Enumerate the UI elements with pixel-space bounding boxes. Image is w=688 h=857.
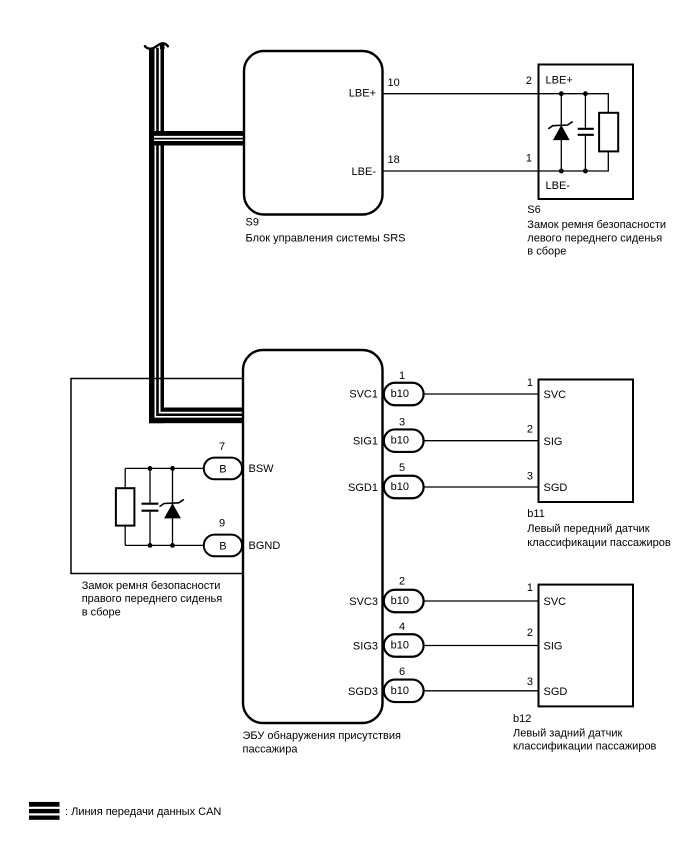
svg-text:SIG: SIG	[544, 436, 563, 448]
caption right front seat belt buckle	[82, 580, 223, 619]
caption S6	[527, 219, 666, 258]
svg-text:SVC3: SVC3	[349, 596, 378, 608]
pin number 2 (S6)	[526, 75, 532, 87]
wire break symbol at top of CAN bus	[145, 43, 168, 49]
pin label SVC3	[349, 596, 378, 608]
pin label SIG (b11)	[544, 436, 563, 448]
wire S6 bottom rail	[538, 151, 608, 171]
pin number 4 (ECU side lower)	[399, 621, 405, 633]
svg-text:5: 5	[399, 462, 405, 474]
svg-text:BSW: BSW	[249, 463, 275, 475]
svg-text:b10: b10	[391, 595, 409, 607]
wire LBE+ net (S9 pin 10 to S6 pin 2)	[383, 93, 539, 95]
pin label LBE+ (S9)	[349, 88, 376, 100]
wire SVC1 net	[423, 393, 538, 395]
svg-text:правого переднего сиденья: правого переднего сиденья	[82, 593, 223, 605]
wire S6 top rail	[538, 94, 608, 113]
pin label SGD (b11)	[544, 482, 568, 494]
pin number 3 (b12 side)	[527, 676, 533, 688]
svg-text:b10: b10	[391, 435, 409, 447]
svg-text:1: 1	[526, 153, 532, 165]
connector pin b10 (SIG1, pin 3)	[384, 429, 424, 452]
pin number 6 (ECU side lower)	[399, 666, 405, 678]
pin label LBE+ (S6)	[546, 75, 573, 87]
svg-text:2: 2	[399, 575, 405, 587]
svg-text:классификации пассажиров: классификации пассажиров	[513, 741, 657, 753]
pin number 1 (b12 side)	[527, 582, 533, 594]
pin number 2 (b12 side)	[527, 627, 533, 639]
wire LBE- net (S9 pin 18 to S6 pin 1)	[383, 170, 539, 172]
svg-text:LBE-: LBE-	[352, 166, 377, 178]
pin number 2 (ECU side lower)	[399, 575, 405, 587]
svg-text:LBE+: LBE+	[349, 88, 376, 100]
pin label BGND	[249, 540, 281, 552]
pin label SIG (b12)	[544, 641, 563, 653]
svg-text:2: 2	[527, 424, 533, 436]
connector pin b10 (SIG3, pin 4)	[384, 634, 424, 657]
svg-text:1: 1	[527, 582, 533, 594]
svg-text:SVC: SVC	[544, 389, 567, 401]
label S6	[527, 204, 540, 216]
pin number 9	[219, 518, 225, 530]
svg-text:b10: b10	[391, 640, 409, 652]
pin number 5 (ECU side upper)	[399, 462, 405, 474]
svg-text:3: 3	[527, 471, 533, 483]
wire SGD3 net	[423, 690, 538, 692]
svg-text:b10: b10	[391, 481, 409, 493]
pin number 3 (b11 side)	[527, 471, 533, 483]
pin label BSW	[249, 463, 275, 475]
svg-text:классификации пассажиров: классификации пассажиров	[527, 537, 671, 549]
wire SIG1 net	[423, 440, 538, 442]
junction dots buckle	[148, 466, 175, 548]
connector pin B (BSW, pin 7)	[204, 458, 242, 480]
svg-text:левого переднего сиденья: левого переднего сиденья	[527, 233, 662, 245]
capacitor (buckle internal)	[142, 468, 159, 545]
svg-text:2: 2	[526, 75, 532, 87]
pin label SGD3	[348, 686, 378, 698]
pin label SGD1	[348, 482, 378, 494]
svg-text:: Линия передачи данных CAN: : Линия передачи данных CAN	[65, 806, 221, 818]
label b11	[527, 508, 545, 520]
svg-text:b10: b10	[391, 685, 409, 697]
resistor (buckle internal)	[116, 468, 134, 545]
svg-text:пассажира: пассажира	[243, 744, 299, 756]
pin label LBE- (S9)	[352, 166, 377, 178]
svg-text:BGND: BGND	[249, 540, 281, 552]
pin number 7	[219, 441, 225, 453]
box S9 (SRS control unit)	[244, 51, 383, 215]
wire BGND (buckle to ECU pin 9)	[125, 544, 204, 546]
svg-text:18: 18	[388, 154, 400, 166]
pin number 18	[388, 154, 400, 166]
svg-text:S9: S9	[246, 217, 259, 229]
connector pin b10 (SGD3, pin 6)	[384, 680, 424, 703]
svg-text:b10: b10	[391, 388, 409, 400]
svg-text:SGD: SGD	[544, 686, 568, 698]
caption ECU	[243, 730, 402, 755]
svg-text:Блок управления системы SRS: Блок управления системы SRS	[246, 232, 406, 244]
svg-text:LBE-: LBE-	[546, 180, 571, 192]
wire SVC3 net	[423, 600, 538, 602]
svg-text:SGD1: SGD1	[348, 482, 378, 494]
svg-text:7: 7	[219, 441, 225, 453]
capacitor (S6 internal)	[578, 94, 594, 171]
svg-text:9: 9	[219, 518, 225, 530]
wire SIG3 net	[423, 645, 538, 647]
pin number 1 (b11 side)	[527, 377, 533, 389]
svg-text:в сборе: в сборе	[82, 607, 121, 619]
svg-text:SVC: SVC	[544, 596, 567, 608]
label b12	[513, 713, 531, 725]
svg-text:S6: S6	[527, 204, 540, 216]
wire SGD1 net	[423, 486, 538, 488]
svg-text:в сборе: в сборе	[527, 246, 566, 258]
connector pin b10 (SGD1, pin 5)	[384, 476, 424, 499]
svg-text:2: 2	[527, 627, 533, 639]
connector pin b10 (SVC3, pin 2)	[384, 590, 424, 613]
svg-text:SIG: SIG	[544, 641, 563, 653]
box ECU (occupant detection)	[243, 350, 383, 723]
svg-text:6: 6	[399, 666, 405, 678]
connector pin b10 (SVC1, pin 1)	[384, 383, 424, 406]
pin label SIG1	[353, 436, 378, 448]
legend caption	[65, 806, 221, 818]
resistor (S6 internal)	[599, 113, 618, 152]
svg-text:b12: b12	[513, 713, 531, 725]
svg-text:1: 1	[527, 377, 533, 389]
pin number 2 (b11 side)	[527, 424, 533, 436]
svg-text:Левый передний датчик: Левый передний датчик	[527, 523, 649, 535]
pin number 1 (S6)	[526, 153, 532, 165]
wire CAN bus upper branch to S9	[154, 131, 244, 146]
pin number 1 (ECU side upper)	[399, 370, 405, 382]
caption b11	[527, 523, 671, 549]
svg-text:4: 4	[399, 621, 405, 633]
svg-text:SIG1: SIG1	[353, 436, 378, 448]
wire CAN bus vertical segment	[149, 48, 164, 423]
connector pin B (BGND, pin 9)	[204, 535, 242, 557]
pin label SGD (b12)	[544, 686, 568, 698]
svg-text:Замок ремня безопасности: Замок ремня безопасности	[527, 219, 666, 231]
legend CAN line symbol	[29, 802, 60, 820]
pin number 10	[388, 77, 400, 89]
svg-text:3: 3	[527, 676, 533, 688]
box b11 (left front passenger classification sensor)	[539, 380, 634, 503]
svg-text:Левый задний датчик: Левый задний датчик	[513, 727, 622, 739]
zener diode (buckle internal)	[160, 468, 184, 545]
svg-text:LBE+: LBE+	[546, 75, 573, 87]
svg-text:SGD: SGD	[544, 482, 568, 494]
pin label SVC (b12)	[544, 596, 567, 608]
label S9	[246, 217, 259, 229]
box right front seat belt buckle	[71, 379, 244, 574]
zener diode (S6 internal)	[548, 94, 572, 171]
svg-text:1: 1	[399, 370, 405, 382]
svg-text:Замок ремня безопасности: Замок ремня безопасности	[82, 580, 221, 592]
pin number 3 (ECU side upper)	[399, 417, 405, 429]
wire BSW (buckle to ECU pin 7)	[125, 467, 204, 469]
caption S9	[246, 232, 406, 244]
box b12 (left rear passenger classification sensor)	[539, 585, 634, 707]
svg-text:B: B	[219, 464, 226, 476]
caption b12	[513, 727, 657, 752]
pin label SVC1	[349, 389, 378, 401]
svg-text:10: 10	[388, 77, 400, 89]
box S6 (left front seat belt buckle)	[539, 65, 634, 200]
wire CAN bus lower horizontal segment to ECU	[149, 48, 245, 423]
svg-text:SIG3: SIG3	[353, 641, 378, 653]
pin label LBE- (S6)	[546, 180, 571, 192]
svg-text:ЭБУ обнаружения присутствия: ЭБУ обнаружения присутствия	[243, 730, 402, 742]
svg-text:SVC1: SVC1	[349, 389, 378, 401]
svg-text:B: B	[219, 541, 226, 553]
pin label SVC (b11)	[544, 389, 567, 401]
svg-text:b11: b11	[527, 508, 545, 520]
svg-text:SGD3: SGD3	[348, 686, 378, 698]
svg-text:3: 3	[399, 417, 405, 429]
junction dots S6	[559, 91, 588, 173]
pin label SIG3	[353, 641, 378, 653]
